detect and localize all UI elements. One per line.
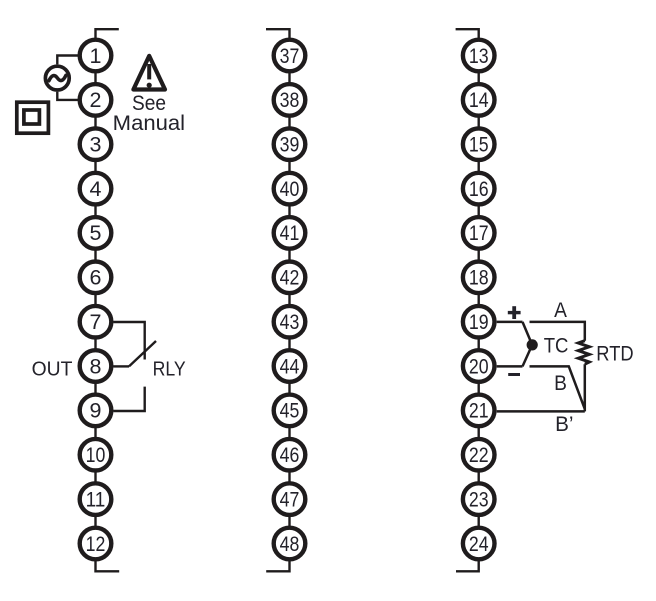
TC negative lead diagonal	[523, 345, 533, 367]
svg-text:B’: B’	[555, 413, 573, 436]
terminal 6	[80, 262, 112, 294]
wire terminal 7 to relay fixed contact	[113, 322, 144, 360]
svg-text:24: 24	[469, 532, 489, 556]
terminal 8	[80, 350, 112, 382]
terminal 5	[80, 217, 112, 249]
terminal 19	[463, 306, 495, 338]
terminal 40	[274, 173, 306, 205]
svg-text:B: B	[554, 372, 567, 395]
TC positive lead diagonal	[523, 322, 533, 345]
minus polarity mark	[508, 373, 520, 376]
terminal 4	[80, 173, 112, 205]
terminal 2	[80, 84, 112, 116]
wire: column 2 spine with case corner marks	[266, 29, 290, 571]
terminal 9	[80, 395, 112, 427]
svg-text:10: 10	[86, 443, 106, 467]
terminal 23	[463, 483, 495, 515]
terminal 38	[274, 84, 306, 116]
svg-text:2: 2	[90, 88, 102, 112]
svg-text:42: 42	[280, 266, 300, 290]
terminal 12	[80, 528, 112, 560]
terminal 18	[463, 262, 495, 294]
terminal 42	[274, 262, 306, 294]
svg-text:43: 43	[280, 310, 300, 334]
svg-text:18: 18	[469, 266, 489, 290]
svg-text:47: 47	[280, 487, 300, 511]
wire terminal 9 to relay contact	[113, 387, 144, 411]
terminal 15	[463, 128, 495, 160]
terminal 20	[463, 350, 495, 382]
svg-text:20: 20	[469, 354, 489, 378]
svg-text:9: 9	[90, 399, 102, 423]
svg-text:37: 37	[280, 44, 300, 68]
wire: column 1 spine with case corner marks	[96, 29, 120, 571]
svg-text:3: 3	[90, 133, 102, 157]
terminal 24	[463, 528, 495, 560]
svg-text:46: 46	[280, 443, 300, 467]
resistor RTD zigzag	[578, 341, 589, 365]
svg-text:7: 7	[90, 310, 102, 334]
terminal 46	[274, 439, 306, 471]
svg-text:17: 17	[469, 221, 489, 245]
svg-text:TC: TC	[544, 334, 569, 357]
svg-text:38: 38	[280, 88, 300, 112]
terminal 16	[463, 173, 495, 205]
terminal 17	[463, 217, 495, 249]
svg-text:45: 45	[280, 399, 300, 423]
svg-text:21: 21	[469, 399, 489, 423]
wire terminal 8 to relay blade	[113, 365, 129, 367]
terminal 21	[463, 395, 495, 427]
svg-text:1: 1	[90, 44, 102, 68]
wire terminal 1 to AC source	[57, 56, 79, 65]
terminal 1	[80, 40, 112, 72]
svg-text:41: 41	[280, 221, 300, 245]
svg-text:Manual: Manual	[113, 111, 185, 135]
terminal 39	[274, 128, 306, 160]
wire terminal 19 (+)	[497, 321, 523, 324]
svg-text:44: 44	[280, 354, 300, 378]
terminal 22	[463, 439, 495, 471]
svg-text:OUT: OUT	[32, 357, 73, 380]
svg-text:23: 23	[469, 487, 489, 511]
plus polarity mark	[508, 306, 521, 319]
wire RTD bottom leg	[584, 364, 587, 411]
Class II double-insulation symbol	[17, 102, 49, 133]
terminal 7	[80, 306, 112, 338]
svg-text:39: 39	[280, 133, 300, 157]
label "See Manual"	[113, 91, 185, 135]
warning triangle (see manual)	[133, 56, 165, 90]
svg-text:RLY: RLY	[153, 357, 186, 380]
terminal 14	[463, 84, 495, 116]
terminal 48	[274, 528, 306, 560]
wire terminal 20 (-)	[497, 365, 523, 368]
svg-text:14: 14	[469, 88, 489, 112]
terminal 47	[274, 483, 306, 515]
svg-text:15: 15	[469, 133, 489, 157]
svg-text:RTD: RTD	[596, 343, 633, 366]
svg-text:13: 13	[469, 44, 489, 68]
svg-text:8: 8	[90, 354, 102, 378]
svg-text:11: 11	[86, 487, 106, 511]
svg-text:A: A	[554, 299, 567, 322]
terminal 10	[80, 439, 112, 471]
terminal 44	[274, 350, 306, 382]
svg-text:22: 22	[469, 443, 489, 467]
svg-text:6: 6	[90, 266, 102, 290]
terminal 3	[80, 128, 112, 160]
svg-text:19: 19	[469, 310, 489, 334]
svg-text:4: 4	[90, 177, 102, 201]
svg-text:48: 48	[280, 532, 300, 556]
wire: column 3 spine with case corner marks	[456, 29, 479, 571]
svg-text:5: 5	[90, 221, 102, 245]
relay contact blade	[129, 341, 156, 366]
TC junction dot	[527, 339, 538, 350]
wire B to RTD bottom	[530, 366, 585, 409]
svg-text:40: 40	[280, 177, 300, 201]
terminal 43	[274, 306, 306, 338]
terminal 37	[274, 40, 306, 72]
wire A to RTD top	[530, 322, 585, 341]
AC source symbol	[45, 66, 69, 90]
wire B-prime terminal 21 to RTD bottom	[497, 410, 585, 413]
terminal 13	[463, 40, 495, 72]
svg-text:12: 12	[86, 532, 106, 556]
svg-text:16: 16	[469, 177, 489, 201]
terminal 45	[274, 395, 306, 427]
terminal 11	[80, 483, 112, 515]
terminal 41	[274, 217, 306, 249]
wire AC source to terminal 2	[57, 92, 79, 100]
